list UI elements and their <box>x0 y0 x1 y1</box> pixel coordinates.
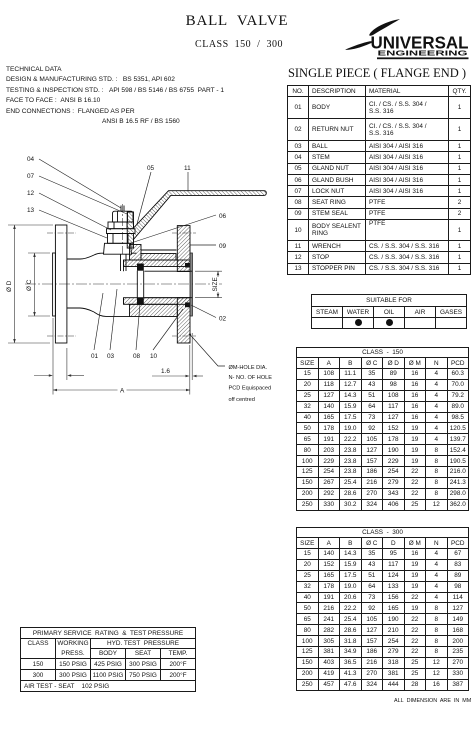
svg-text:01: 01 <box>91 353 99 360</box>
dim 1.6 <box>152 375 188 377</box>
svg-text:Ø C: Ø C <box>26 279 33 291</box>
bonnet <box>104 243 132 254</box>
leader 13 <box>39 210 107 238</box>
right flange bolt centerline bottom <box>172 335 196 337</box>
technical data block <box>6 65 224 127</box>
seat ring top (black) <box>137 264 144 271</box>
dim SIZE <box>217 271 219 298</box>
left flange bolt centerline top <box>47 232 76 234</box>
body hub hatch left boss <box>130 245 142 261</box>
body outline <box>94 253 137 316</box>
dim A <box>53 389 190 391</box>
svg-text:03: 03 <box>107 353 115 360</box>
leader 11 <box>187 172 189 191</box>
stem shaft into ball <box>120 254 122 271</box>
leader 09 <box>190 244 216 246</box>
title <box>0 13 474 30</box>
logo swoosh upper <box>369 19 400 36</box>
leader 06 <box>131 215 216 243</box>
svg-text:off centred: off centred <box>229 397 255 403</box>
parts list table <box>287 85 471 275</box>
return nut hex top line <box>141 249 177 251</box>
dimensions <box>8 225 222 395</box>
gasket band lower <box>124 298 191 305</box>
centerline horizontal <box>25 283 222 285</box>
leader 10 <box>153 309 183 350</box>
dimension texts <box>6 277 219 395</box>
right flange raised face <box>190 253 192 316</box>
stem centerline <box>122 204 124 254</box>
svg-text:SIZE: SIZE <box>212 277 219 291</box>
leader 01 <box>94 293 103 350</box>
left flange raised face <box>53 253 56 316</box>
logo underline <box>377 57 469 59</box>
footer note <box>394 698 471 704</box>
svg-text:A: A <box>120 388 125 395</box>
svg-text:1.6: 1.6 <box>161 368 170 375</box>
class 300 table <box>296 527 469 691</box>
right flange upper (hatched) <box>177 226 190 272</box>
svg-text:02: 02 <box>219 316 227 323</box>
left flange <box>55 225 67 343</box>
hole note <box>229 365 273 403</box>
ball bore left edge <box>136 271 138 298</box>
svg-text:05: 05 <box>147 165 155 172</box>
leader 12 <box>39 193 111 230</box>
logo Universal Engineering <box>345 15 474 61</box>
right flange bolt centerline top <box>172 232 196 234</box>
svg-text:12: 12 <box>27 190 35 197</box>
band lower second <box>130 304 178 316</box>
bore bottom line <box>145 297 193 299</box>
seat ring bottom (black) <box>137 298 144 305</box>
dim OC <box>34 253 36 316</box>
svg-text:ØM-HOLE DIA.: ØM-HOLE DIA. <box>229 365 268 371</box>
svg-text:09: 09 <box>219 243 227 250</box>
body sealant ring top (black) <box>185 263 192 268</box>
suitable for table <box>311 294 467 329</box>
leader 02 <box>191 305 216 318</box>
dim OD <box>14 225 16 343</box>
leader 04 <box>39 159 121 208</box>
logo swoosh lower <box>345 41 372 50</box>
svg-text:13: 13 <box>27 207 35 214</box>
subtitle <box>0 39 474 50</box>
svg-text:04: 04 <box>27 156 35 163</box>
leader lines <box>39 159 225 366</box>
gland bush 06 <box>108 234 134 244</box>
svg-text:11: 11 <box>184 165 191 172</box>
svg-text:08: 08 <box>133 353 141 360</box>
body sealant ring bottom (black) <box>185 302 192 307</box>
stop plate 12 <box>107 229 136 234</box>
svg-text:06: 06 <box>219 213 227 220</box>
class 150 table <box>296 347 469 511</box>
gasket band upper <box>124 260 191 267</box>
leader hole note <box>190 334 226 366</box>
lock nut 07 <box>113 211 134 222</box>
leader 08 <box>136 304 140 350</box>
primary service rating table <box>20 627 196 692</box>
body hub hatch middle <box>141 254 176 261</box>
right flange lower (hatched) <box>177 298 190 343</box>
neck top line <box>67 255 94 259</box>
left flange bolt centerline bottom <box>47 335 76 337</box>
svg-text:PCD Equispaced: PCD Equispaced <box>229 386 272 392</box>
single piece heading <box>282 66 472 81</box>
stem top stub <box>120 206 122 212</box>
gland nut 05 <box>108 222 134 229</box>
leader 05 <box>137 172 151 224</box>
svg-text:Ø D: Ø D <box>6 280 13 292</box>
svg-text:ENGINEERING: ENGINEERING <box>378 49 468 58</box>
text SIZE <box>211 277 219 292</box>
wrench 11 (hatched bent strap) <box>127 191 266 248</box>
item number labels <box>27 156 272 403</box>
bore top line <box>145 270 193 272</box>
text A <box>118 386 127 394</box>
ball bore right edge <box>143 271 145 298</box>
neck bottom line <box>67 308 94 312</box>
dim B left small <box>34 375 51 377</box>
leader 07 <box>39 176 127 214</box>
svg-text:10: 10 <box>150 353 158 360</box>
VALVE DRAWING <box>0 140 285 430</box>
leader 03 <box>110 289 117 350</box>
svg-text:07: 07 <box>27 173 35 180</box>
svg-text:N- NO. OF HOLE: N- NO. OF HOLE <box>229 375 273 381</box>
